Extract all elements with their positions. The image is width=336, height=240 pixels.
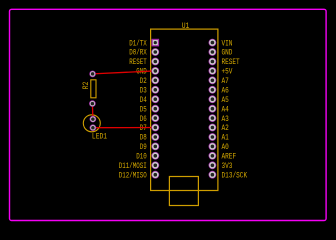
U1 pad D4 (left row 7) bbox=[151, 95, 159, 103]
svg-text:A7: A7 bbox=[222, 77, 229, 86]
svg-text:D5: D5 bbox=[140, 105, 147, 114]
svg-text:D12/MISO: D12/MISO bbox=[119, 171, 147, 180]
svg-text:A1: A1 bbox=[222, 134, 229, 143]
LED1 cathode pad bbox=[90, 124, 97, 131]
U1 pad A5 (right row 7) bbox=[209, 95, 217, 103]
U1 pad D3 (left row 6) bbox=[151, 86, 159, 94]
U1 left pin name labels bbox=[119, 39, 147, 180]
U1 pad D1/TX (left row 1) bbox=[152, 39, 160, 47]
U1 pad RESET (right row 3) bbox=[209, 58, 217, 66]
IC U1 (Arduino Nano) body outline bbox=[151, 29, 218, 190]
U1 pad A2 (right row 10) bbox=[209, 124, 217, 132]
svg-text:D1/TX: D1/TX bbox=[129, 39, 147, 48]
svg-text:A2: A2 bbox=[222, 124, 229, 133]
svg-text:D9: D9 bbox=[140, 143, 147, 152]
svg-text:A6: A6 bbox=[222, 87, 229, 96]
U1 pad VIN (right row 1) bbox=[209, 39, 217, 47]
U1 pad 3V3 (right row 14) bbox=[209, 161, 217, 169]
R2 pad 2 bbox=[89, 100, 96, 107]
U1 pad D8 (left row 11) bbox=[151, 133, 159, 141]
svg-text:D7: D7 bbox=[140, 124, 147, 133]
svg-text:VIN: VIN bbox=[222, 39, 233, 48]
LED1 anode pad bbox=[90, 116, 97, 123]
IC U1 USB tab outline bbox=[169, 177, 198, 206]
wire R2 pin 2 to LED1 anode bbox=[91, 104, 94, 120]
wire LED1 cathode to U1 D7 bbox=[93, 127, 155, 129]
svg-text:A5: A5 bbox=[222, 96, 229, 105]
U1 pad A0 (right row 12) bbox=[209, 143, 217, 151]
resistor R2 body outline bbox=[91, 80, 96, 98]
LED LED1 body outline bbox=[83, 115, 100, 132]
U1 pad GND (left row 4) bbox=[151, 67, 159, 75]
U1 pad D11/MOSI (left row 14) bbox=[151, 161, 159, 169]
U1 pad D10 (left row 13) bbox=[151, 152, 159, 160]
U1 pad A1 (right row 11) bbox=[209, 133, 217, 141]
U1 pad A3 (right row 9) bbox=[209, 114, 217, 122]
U1 pad D13/SCK (right row 15) bbox=[209, 171, 217, 179]
svg-text:D13/SCK: D13/SCK bbox=[222, 171, 248, 180]
svg-text:LED1: LED1 bbox=[92, 132, 107, 141]
U1 pad AREF (right row 13) bbox=[209, 152, 217, 160]
U1 pad D7 (left row 10) bbox=[151, 124, 159, 132]
U1 pad D0/RX (left row 2) bbox=[151, 48, 159, 56]
U1 pad A4 (right row 8) bbox=[209, 105, 217, 113]
U1 pad D5 (left row 8) bbox=[151, 105, 159, 113]
svg-text:R2: R2 bbox=[82, 81, 91, 89]
U1 pad D2 (left row 5) bbox=[151, 76, 159, 84]
U1 pad GND (right row 2) bbox=[209, 48, 217, 56]
svg-text:RESET: RESET bbox=[222, 58, 240, 67]
svg-text:A3: A3 bbox=[222, 115, 229, 124]
U1 pad A7 (right row 5) bbox=[209, 76, 217, 84]
U1 pad RESET (left row 3) bbox=[151, 58, 159, 66]
svg-text:AREF: AREF bbox=[222, 153, 237, 162]
svg-text:D11/MOSI: D11/MOSI bbox=[119, 162, 147, 171]
U1 pad D6 (left row 9) bbox=[151, 114, 159, 122]
wire R2 pin 1 to U1 GND bbox=[93, 71, 156, 74]
svg-text:U1: U1 bbox=[182, 22, 190, 31]
U1 pad D9 (left row 12) bbox=[151, 143, 159, 151]
svg-text:D2: D2 bbox=[140, 77, 147, 86]
svg-text:D4: D4 bbox=[140, 96, 147, 105]
svg-text:+5V: +5V bbox=[222, 68, 233, 77]
svg-text:A4: A4 bbox=[222, 105, 229, 114]
U1 pad A6 (right row 6) bbox=[209, 86, 217, 94]
svg-text:GND: GND bbox=[222, 49, 233, 58]
U1 pad D12/MISO (left row 15) bbox=[151, 171, 159, 179]
R2 pad 1 bbox=[89, 71, 96, 78]
svg-text:D8: D8 bbox=[140, 134, 147, 143]
U1 pad +5V (right row 4) bbox=[209, 67, 217, 75]
U1 right pin name labels bbox=[222, 39, 248, 180]
svg-text:D0/RX: D0/RX bbox=[129, 49, 147, 58]
svg-text:A0: A0 bbox=[222, 143, 229, 152]
svg-text:D3: D3 bbox=[140, 87, 147, 96]
svg-text:3V3: 3V3 bbox=[222, 162, 233, 171]
svg-text:D6: D6 bbox=[140, 115, 147, 124]
svg-text:RESET: RESET bbox=[129, 58, 147, 67]
svg-text:D10: D10 bbox=[136, 153, 147, 162]
